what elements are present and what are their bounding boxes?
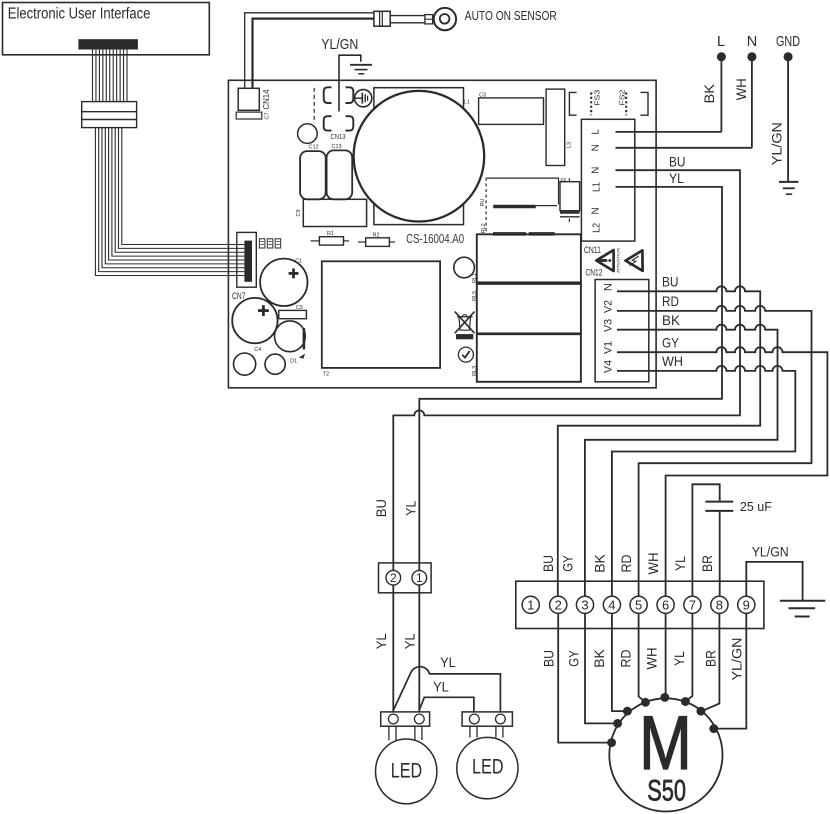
svg-text:BK: BK xyxy=(591,649,607,668)
svg-text:N: N xyxy=(590,167,601,174)
svg-text:RD: RD xyxy=(618,555,634,573)
svg-text:D1: D1 xyxy=(290,358,297,364)
svg-text:BR: BR xyxy=(703,650,719,667)
svg-text:L1: L1 xyxy=(464,100,470,106)
svg-text:R2: R2 xyxy=(373,232,380,238)
svg-text:C7: C7 xyxy=(264,113,270,120)
svg-text:C4: C4 xyxy=(254,347,261,353)
svg-text:ATTENTION: ATTENTION xyxy=(617,248,621,273)
svg-text:C9: C9 xyxy=(296,209,302,216)
svg-text:YL/GN: YL/GN xyxy=(321,37,358,53)
svg-text:YL: YL xyxy=(401,633,417,649)
svg-text:CN11: CN11 xyxy=(584,245,601,255)
svg-text:L: L xyxy=(717,34,725,50)
svg-text:V2: V2 xyxy=(602,300,614,313)
svg-text:LED: LED xyxy=(391,758,423,782)
svg-text:2: 2 xyxy=(555,597,562,612)
svg-text:4: 4 xyxy=(608,597,615,612)
svg-text:FS3: FS3 xyxy=(592,90,601,106)
svg-text:BU: BU xyxy=(540,555,556,572)
svg-text:7: 7 xyxy=(689,597,696,612)
svg-text:L: L xyxy=(590,129,601,135)
svg-text:YL: YL xyxy=(671,651,687,666)
svg-text:WH: WH xyxy=(645,553,661,575)
svg-text:RU: RU xyxy=(480,199,486,207)
svg-text:BK: BK xyxy=(662,312,681,328)
svg-text:CN14: CN14 xyxy=(261,89,271,109)
svg-text:6: 6 xyxy=(662,597,669,612)
svg-text:N: N xyxy=(590,144,601,151)
svg-text:R1: R1 xyxy=(327,231,334,237)
svg-text:L2: L2 xyxy=(592,223,603,233)
svg-text:BU: BU xyxy=(662,274,679,290)
svg-text:V4: V4 xyxy=(602,360,614,373)
svg-text:N: N xyxy=(602,283,614,291)
svg-text:YL: YL xyxy=(440,654,456,670)
svg-text:CN13: CN13 xyxy=(331,132,346,141)
svg-text:GY: GY xyxy=(560,555,576,572)
svg-text:WH: WH xyxy=(733,78,749,100)
svg-text:CN12: CN12 xyxy=(585,268,602,278)
svg-text:3: 3 xyxy=(581,597,588,612)
svg-text:YL: YL xyxy=(373,633,389,649)
svg-text:YL: YL xyxy=(669,170,684,186)
svg-text:CS-16004.A0: CS-16004.A0 xyxy=(406,231,464,246)
svg-text:9: 9 xyxy=(743,597,750,612)
svg-text:WH: WH xyxy=(644,648,660,670)
svg-text:GY: GY xyxy=(566,650,582,667)
svg-text:BK: BK xyxy=(701,83,717,103)
svg-text:RD: RD xyxy=(618,650,634,668)
svg-text:CN7: CN7 xyxy=(232,291,246,301)
svg-text:2: 2 xyxy=(390,571,397,585)
svg-text:YL/GN: YL/GN xyxy=(769,122,785,165)
svg-text:AUTO ON SENSOR: AUTO ON SENSOR xyxy=(465,8,557,23)
svg-text:L1: L1 xyxy=(592,182,603,192)
svg-text:V3: V3 xyxy=(602,319,614,332)
svg-text:RL2: RL2 xyxy=(481,223,487,233)
svg-text:C13: C13 xyxy=(332,144,342,150)
svg-text:T2: T2 xyxy=(323,371,329,377)
svg-text:V1: V1 xyxy=(602,341,614,354)
svg-text:LED: LED xyxy=(472,754,504,778)
svg-text:L3: L3 xyxy=(566,142,572,148)
svg-text:BR: BR xyxy=(699,555,715,572)
svg-text:GND: GND xyxy=(776,34,800,50)
svg-text:RL5: RL5 xyxy=(472,291,478,301)
svg-text:C3: C3 xyxy=(479,93,486,99)
svg-text:D2: D2 xyxy=(561,177,567,182)
svg-text:C5: C5 xyxy=(296,305,303,311)
svg-text:N: N xyxy=(747,34,757,50)
svg-text:FS2: FS2 xyxy=(617,90,626,106)
svg-text:YL: YL xyxy=(402,501,418,516)
svg-text:RD: RD xyxy=(662,293,679,309)
svg-text:RL3: RL3 xyxy=(472,366,478,376)
svg-text:M: M xyxy=(639,701,692,786)
svg-text:YL/GN: YL/GN xyxy=(728,638,744,681)
svg-text:1: 1 xyxy=(416,571,423,585)
svg-text:Electronic User Interface: Electronic User Interface xyxy=(8,6,151,23)
svg-text:5: 5 xyxy=(635,597,642,612)
svg-text:8: 8 xyxy=(716,597,723,612)
svg-text:S50: S50 xyxy=(647,774,686,807)
svg-text:YL: YL xyxy=(672,556,688,571)
svg-text:N: N xyxy=(590,207,601,214)
svg-text:BU: BU xyxy=(541,650,557,667)
svg-text:YL: YL xyxy=(433,678,449,694)
svg-text:C12: C12 xyxy=(309,144,319,150)
svg-text:1: 1 xyxy=(527,597,534,612)
svg-text:GY: GY xyxy=(662,335,680,351)
svg-text:BU: BU xyxy=(669,153,686,169)
svg-text:WH: WH xyxy=(662,353,683,369)
svg-text:BK: BK xyxy=(591,554,607,573)
svg-text:RL1: RL1 xyxy=(472,273,478,283)
svg-text:BU: BU xyxy=(373,499,389,517)
svg-text:YL/GN: YL/GN xyxy=(752,544,789,560)
svg-text:25 uF: 25 uF xyxy=(740,499,772,514)
svg-text:C1: C1 xyxy=(295,258,302,264)
